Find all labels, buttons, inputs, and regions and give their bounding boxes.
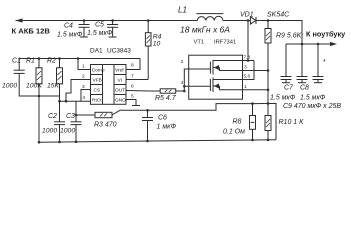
- svg-text:UC3843: UC3843: [107, 48, 131, 55]
- mosfet upper: [210, 60, 268, 75]
- wire pin7 to R4: [126, 79, 148, 81]
- node drains top: [247, 59, 250, 62]
- svg-text:К ноутбуку: К ноутбуку: [306, 30, 346, 39]
- wire node B to pin4: [60, 100, 91, 102]
- svg-text:18 мкГн х 6А: 18 мкГн х 6А: [180, 25, 230, 35]
- node bus C3: [75, 141, 78, 144]
- svg-text:4: 4: [181, 80, 184, 86]
- wire output line: [286, 43, 330, 45]
- ground under C8: [298, 82, 306, 84]
- wire pin2 VFB zigzag: [66, 80, 91, 102]
- svg-text:GND: GND: [115, 97, 126, 103]
- ground under C4: [80, 36, 88, 38]
- node C1-R1: [38, 95, 41, 98]
- svg-text:R1: R1: [26, 58, 35, 65]
- diode VD1: [250, 17, 256, 24]
- ground pin5: [132, 105, 140, 107]
- svg-text:R10 1 К: R10 1 К: [279, 119, 305, 126]
- node R8 top: [251, 102, 254, 105]
- node divider tap: [267, 102, 270, 105]
- svg-text:C1: C1: [12, 58, 21, 65]
- IC DA1 UC3843: [91, 65, 127, 105]
- ground under C9: [314, 82, 322, 84]
- resistor R4: [145, 21, 151, 80]
- capacitor C5: [107, 21, 118, 38]
- capacitor C1: [14, 59, 39, 97]
- wire rail diode to output corner: [256, 21, 302, 45]
- wire C1R1 to node B: [39, 95, 60, 97]
- wire pin5 GND: [126, 100, 136, 106]
- wire gates vertical: [184, 69, 210, 91]
- svg-text:C8: C8: [300, 85, 309, 92]
- node bus R8: [251, 139, 254, 142]
- svg-text:L1: L1: [178, 6, 187, 15]
- svg-text:C7: C7: [284, 85, 294, 92]
- node rail pin1 drop: [77, 57, 80, 60]
- node VFB joint: [65, 100, 68, 103]
- svg-text:5: 5: [131, 94, 134, 100]
- resistor R10: [265, 104, 271, 140]
- wire pin6 to R5: [126, 90, 160, 93]
- resistor R3: [76, 112, 112, 117]
- resistor R1: [36, 59, 42, 143]
- node bus C2: [58, 141, 61, 144]
- node C5 tap: [111, 19, 114, 22]
- svg-text:VD1: VD1: [240, 12, 254, 19]
- transistor VT1 box: [189, 55, 243, 99]
- node lower gate: [183, 85, 186, 88]
- wire drain drop from rail: [247, 21, 249, 61]
- resistor R2: [57, 59, 63, 102]
- svg-text:5,6: 5,6: [244, 74, 251, 80]
- svg-text:R2: R2: [47, 58, 56, 65]
- node bus R1: [38, 141, 41, 144]
- node source lower joint: [267, 89, 270, 92]
- svg-text:VT1: VT1: [194, 40, 205, 46]
- wire lower gate: [184, 85, 210, 87]
- svg-text:C4: C4: [64, 23, 73, 30]
- svg-text:2: 2: [82, 74, 85, 80]
- svg-text:1.5 мкФ: 1.5 мкФ: [57, 32, 83, 39]
- svg-text:C3: C3: [66, 113, 75, 120]
- resistor R5: [160, 89, 184, 93]
- svg-text:1000: 1000: [60, 128, 75, 135]
- svg-text:1000: 1000: [2, 83, 17, 90]
- inductor L1: [196, 14, 223, 21]
- svg-text:C2: C2: [48, 113, 57, 120]
- node R4 tap: [147, 19, 150, 22]
- svg-text:RtCt: RtCt: [92, 97, 102, 103]
- wire ground bus: [39, 140, 276, 143]
- svg-text:Comp: Comp: [92, 67, 105, 73]
- node rail R1: [38, 57, 41, 60]
- svg-text:100K: 100K: [26, 83, 42, 90]
- capacitor C3: [71, 101, 82, 142]
- svg-text:VFB: VFB: [93, 77, 102, 83]
- svg-text:15K: 15K: [47, 83, 60, 90]
- svg-text:1.5 мкФ: 1.5 мкФ: [300, 95, 326, 102]
- wire main 12V rail top: [16, 20, 198, 22]
- svg-text:*: *: [323, 59, 326, 66]
- node R2 C2 joint: [58, 100, 61, 103]
- svg-text:R9 5.6K: R9 5.6K: [276, 33, 302, 40]
- node source upper joint: [267, 69, 270, 72]
- svg-text:CS: CS: [94, 87, 101, 93]
- svg-text:DA1: DA1: [90, 48, 103, 55]
- capacitor C2: [54, 101, 65, 142]
- wire drains vertical: [253, 61, 255, 81]
- svg-text:OUT: OUT: [115, 87, 125, 93]
- svg-text:IRF7341: IRF7341: [214, 40, 236, 46]
- svg-text:1.5 мкФ: 1.5 мкФ: [87, 30, 113, 37]
- svg-text:К АКБ 12В: К АКБ 12В: [12, 27, 51, 36]
- svg-text:Vref: Vref: [115, 67, 124, 73]
- svg-text:R5 4.7: R5 4.7: [155, 95, 177, 102]
- svg-text:7,8: 7,8: [244, 55, 251, 61]
- wire rail to pin1: [78, 59, 91, 70]
- svg-text:10: 10: [153, 41, 161, 48]
- wire rail after inductor to diode: [223, 20, 251, 22]
- capacitor C6: [142, 110, 153, 141]
- svg-text:6: 6: [131, 84, 134, 90]
- svg-text:VI: VI: [118, 77, 123, 83]
- svg-text:1000: 1000: [42, 128, 57, 135]
- mosfet lower: [210, 78, 268, 93]
- wire comp rail: [19, 58, 140, 60]
- node R9 tap: [267, 19, 270, 22]
- svg-text:C5: C5: [95, 22, 104, 29]
- ground under C5: [109, 36, 117, 38]
- svg-text:7: 7: [131, 74, 134, 80]
- svg-text:SK54C: SK54C: [267, 12, 290, 19]
- node C6 tap: [146, 109, 149, 112]
- capacitor C9 electrolytic: [313, 44, 324, 83]
- svg-text:C6: C6: [158, 115, 167, 122]
- capacitor C8: [297, 44, 308, 83]
- svg-text:R8: R8: [233, 119, 242, 126]
- node drain drop tap: [247, 19, 250, 22]
- node C3 R3 joint: [75, 114, 78, 117]
- wire pin3 CS down: [81, 90, 91, 102]
- svg-text:1 мкФ: 1 мкФ: [157, 124, 177, 131]
- svg-text:0.1 Ом: 0.1 Ом: [223, 129, 245, 136]
- resistor R9: [265, 21, 271, 104]
- wire CS sense line: [112, 104, 268, 116]
- svg-text:2: 2: [181, 59, 184, 65]
- capacitor C4: [79, 21, 90, 38]
- svg-text:8: 8: [131, 63, 134, 69]
- svg-text:3: 3: [244, 65, 247, 71]
- node C4 tap: [83, 19, 86, 22]
- svg-text:R3 470: R3 470: [94, 122, 117, 129]
- wire rail to pin8: [126, 59, 140, 70]
- resistor R8: [250, 104, 256, 140]
- svg-text:4: 4: [83, 95, 86, 101]
- node bus R10: [267, 139, 270, 142]
- svg-text:C9 470 мкФ х 25В: C9 470 мкФ х 25В: [283, 103, 341, 110]
- node C9 top: [317, 43, 320, 46]
- svg-text:1: 1: [82, 64, 85, 70]
- wire tap to bus corner: [268, 104, 276, 140]
- arrow to laptop: [330, 42, 337, 46]
- arrow to battery: [16, 18, 23, 22]
- node C8 top: [301, 43, 304, 46]
- capacitor C7: [281, 44, 292, 83]
- node rail R2: [58, 57, 61, 60]
- svg-text:1.5 мкФ: 1.5 мкФ: [270, 95, 296, 102]
- svg-text:1: 1: [244, 84, 247, 90]
- svg-text:R4: R4: [153, 34, 162, 41]
- node bus C6: [146, 140, 149, 143]
- ground under C7: [282, 82, 290, 84]
- node R5 gate: [183, 90, 186, 93]
